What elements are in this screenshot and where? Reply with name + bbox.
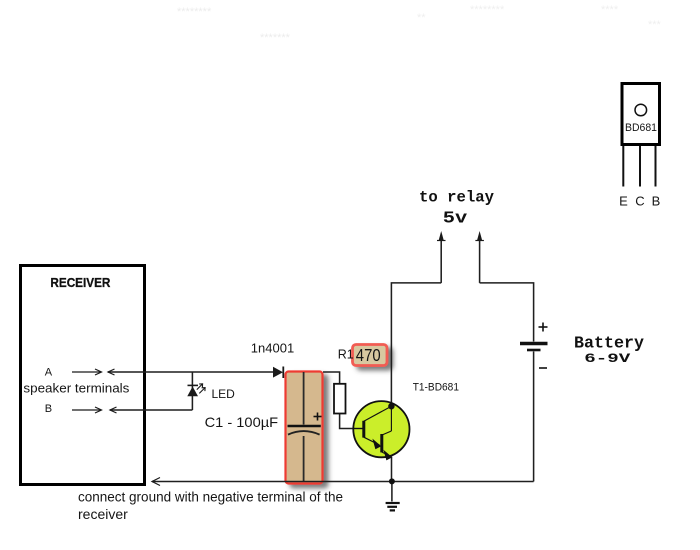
svg-text:B: B: [652, 194, 661, 209]
svg-text:Battery: Battery: [574, 335, 644, 354]
svg-text:470: 470: [356, 345, 381, 365]
svg-text:6-9V: 6-9V: [584, 352, 631, 366]
svg-text:**: **: [417, 12, 426, 24]
svg-text:1n4001: 1n4001: [251, 340, 294, 355]
svg-text:BD681: BD681: [625, 122, 657, 134]
svg-text:***: ***: [648, 19, 662, 31]
svg-text:****: ****: [601, 4, 619, 16]
svg-text:*******: *******: [260, 32, 291, 44]
svg-text:B: B: [45, 403, 52, 415]
svg-text:C1 - 100µF: C1 - 100µF: [205, 414, 279, 430]
svg-text:to relay: to relay: [419, 189, 494, 207]
svg-text:********: ********: [470, 4, 505, 16]
svg-text:LED: LED: [212, 387, 236, 401]
svg-text:********: ********: [177, 6, 212, 18]
svg-text:E: E: [619, 194, 628, 209]
svg-text:A: A: [45, 366, 53, 378]
svg-text:R1: R1: [338, 348, 354, 362]
svg-text:T1-BD681: T1-BD681: [413, 382, 459, 394]
svg-text:connect ground with negative t: connect ground with negative terminal of…: [78, 490, 343, 505]
svg-text:receiver: receiver: [78, 506, 128, 522]
svg-text:5v: 5v: [443, 209, 468, 228]
svg-text:speaker terminals: speaker terminals: [23, 381, 130, 396]
svg-text:RECEIVER: RECEIVER: [50, 275, 111, 290]
svg-text:C: C: [635, 194, 644, 209]
